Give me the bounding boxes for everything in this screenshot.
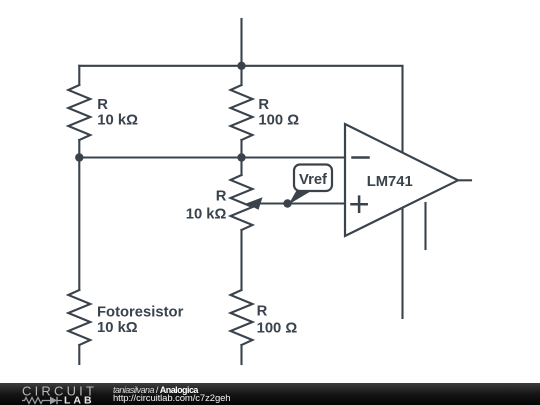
svg-text:10 kΩ: 10 kΩ (97, 320, 138, 336)
svg-text:Fotoresistor: Fotoresistor (97, 305, 184, 321)
svg-text:10 kΩ: 10 kΩ (186, 206, 227, 222)
svg-text:100 Ω: 100 Ω (258, 113, 299, 129)
svg-text:R: R (258, 97, 269, 113)
svg-text:LAB: LAB (64, 395, 95, 405)
svg-text:Vref: Vref (299, 172, 327, 188)
svg-text:LM741: LM741 (367, 174, 413, 190)
svg-text:10 kΩ: 10 kΩ (97, 113, 138, 129)
svg-text:R: R (257, 304, 268, 320)
svg-text:100 Ω: 100 Ω (257, 321, 298, 337)
svg-text:R: R (97, 97, 108, 113)
svg-text:R: R (216, 189, 227, 205)
